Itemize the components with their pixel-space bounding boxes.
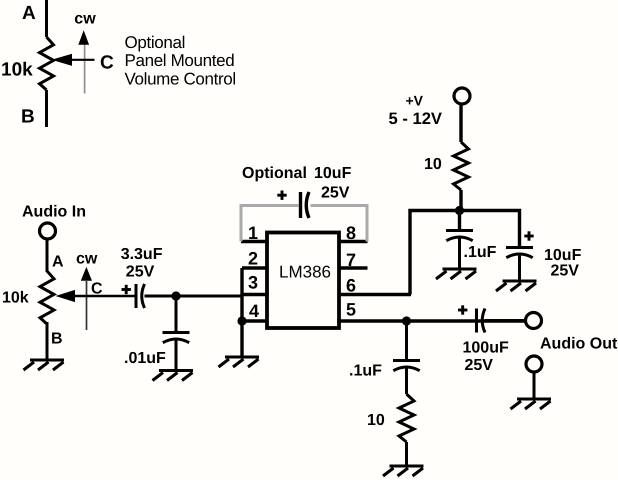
svg-text:Optional: Optional [242,165,307,182]
svg-text:Optional: Optional [125,33,186,52]
svg-text:10: 10 [367,412,385,429]
svg-text:10uF: 10uF [314,165,352,182]
svg-text:1: 1 [248,223,258,243]
svg-text:6: 6 [346,276,356,296]
svg-text:10: 10 [424,156,442,173]
svg-text:3: 3 [248,273,258,293]
svg-text:25V: 25V [465,357,494,374]
svg-text:A: A [52,254,64,271]
svg-text:B: B [21,107,35,128]
svg-text:10k: 10k [2,290,29,307]
svg-text:25V: 25V [321,185,350,202]
svg-text:cw: cw [76,250,98,267]
svg-text:2: 2 [248,249,258,269]
svg-text:7: 7 [346,250,356,270]
svg-text:5 - 12V: 5 - 12V [389,109,443,128]
svg-text:Panel Mounted: Panel Mounted [125,51,235,70]
svg-text:10uF: 10uF [544,247,582,264]
svg-text:+V: +V [406,93,424,109]
svg-text:B: B [51,331,63,348]
svg-text:C: C [100,53,114,74]
svg-text:100uF: 100uF [463,340,509,357]
svg-text:25V: 25V [551,263,580,280]
svg-text:3.3uF: 3.3uF [121,246,163,263]
svg-text:4: 4 [249,301,259,321]
svg-text:cw: cw [74,11,96,28]
svg-text:Audio In: Audio In [22,204,86,221]
svg-text:5: 5 [346,300,356,320]
svg-text:.1uF: .1uF [464,244,497,261]
svg-text:C: C [91,281,103,298]
svg-text:.01uF: .01uF [124,350,166,367]
svg-text:Audio Out: Audio Out [540,336,618,353]
svg-text:10k: 10k [1,60,33,81]
svg-text:8: 8 [346,223,356,243]
svg-text:LM386: LM386 [279,263,331,282]
svg-text:.1uF: .1uF [349,363,382,380]
svg-text:25V: 25V [126,264,155,281]
svg-text:Volume Control: Volume Control [125,69,236,88]
svg-text:A: A [22,3,36,24]
